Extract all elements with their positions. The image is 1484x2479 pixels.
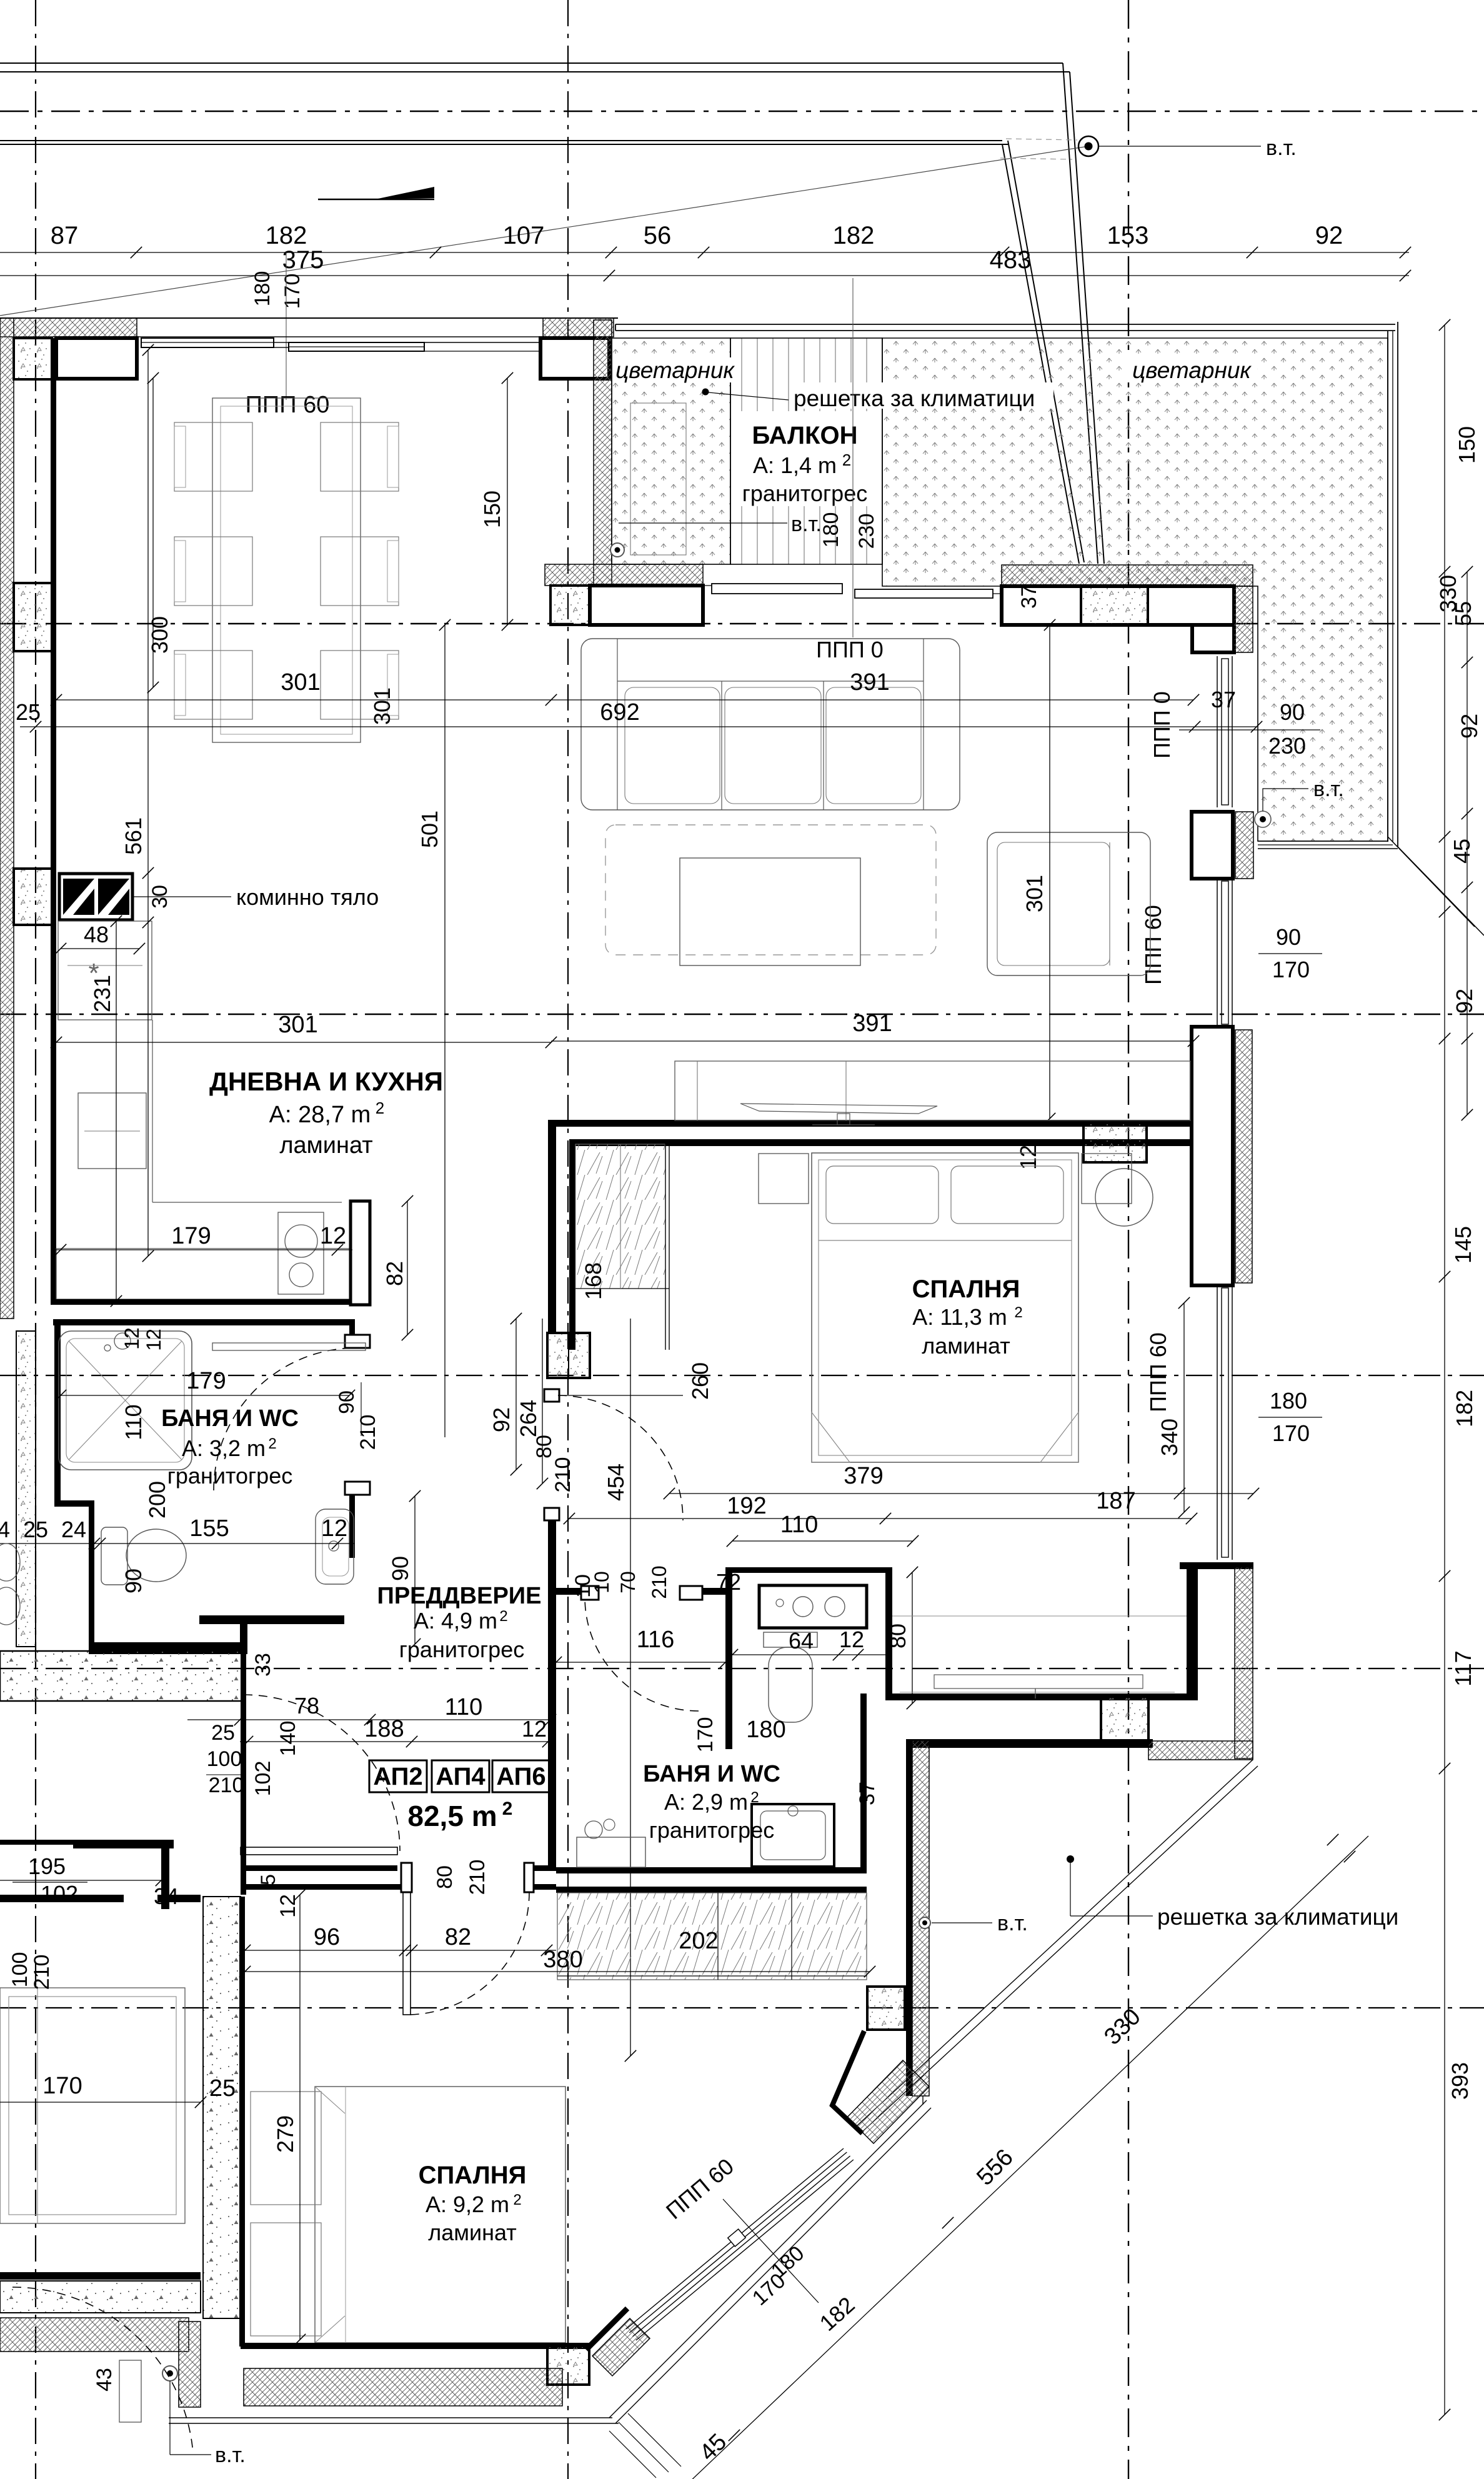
svg-text:260: 260: [687, 1362, 713, 1400]
svg-text:цветарник: цветарник: [1132, 357, 1252, 383]
SE wall vertical masonry: [1193, 1567, 1198, 1700]
axis line horizontal 5: [0, 1668, 1484, 1669]
neighbour room bed: [0, 1988, 185, 2223]
vent point bedroom2 terrace: [919, 1917, 930, 1928]
flower box 1 (tsvetarnik): [612, 338, 730, 564]
svg-text:300: 300: [147, 616, 172, 654]
corridor right wall upper: [548, 1127, 556, 1333]
svg-text:2: 2: [499, 1608, 507, 1625]
insulation band bottom: [0, 2318, 189, 2352]
svg-text:ПРЕДДВЕРИЕ: ПРЕДДВЕРИЕ: [377, 1583, 542, 1609]
bedroom right wall mid masonry: [1192, 1027, 1233, 1285]
entrance door leaf: [241, 1847, 397, 1855]
svg-text:ламинат: ламинат: [922, 1333, 1010, 1359]
svg-text:БАНЯ И WC: БАНЯ И WC: [643, 1761, 780, 1787]
diagonal door dim 180 170: [723, 2199, 819, 2303]
neighbour entrance walls: [73, 1840, 174, 1848]
window sill line: [137, 336, 543, 337]
svg-text:210: 210: [466, 1860, 489, 1895]
corridor dims: [187, 1719, 556, 1720]
svg-text:102: 102: [251, 1761, 275, 1797]
window 180-170 bedroom right: [1217, 1285, 1218, 1560]
svg-text:ППП 60: ППП 60: [1140, 905, 1166, 985]
svg-text:90: 90: [387, 1556, 413, 1581]
svg-text:45: 45: [1449, 839, 1475, 864]
svg-text:210: 210: [356, 1415, 380, 1450]
svg-text:454: 454: [603, 1464, 629, 1501]
corner column top-left: [14, 338, 52, 379]
right dim line outer: [1444, 325, 1445, 2415]
overhang slanted edge outer: [1063, 63, 1098, 564]
label 301 armchair: [1049, 625, 1050, 1119]
label chimney: [134, 896, 231, 897]
slab band lower landing: [0, 1651, 242, 1701]
tsvetarnik label 1: [612, 357, 737, 382]
dim 82 stub: [407, 1201, 408, 1335]
axis line vertical C: [1128, 0, 1129, 2479]
bedroom2 door leaf and swing: [403, 1892, 411, 2015]
grille leader bottom: [1067, 1855, 1074, 1863]
dim 48: [61, 948, 139, 949]
svg-text:АП4: АП4: [436, 1763, 486, 1790]
svg-text:в.т.: в.т.: [791, 512, 822, 536]
bath2 top wall right: [729, 1567, 885, 1573]
north arrow: [375, 187, 434, 199]
svg-text:210: 210: [551, 1457, 575, 1493]
svg-text:170: 170: [42, 2073, 82, 2099]
svg-text:24: 24: [61, 1517, 86, 1542]
svg-text:87: 87: [51, 222, 79, 249]
svg-text:12: 12: [142, 1329, 165, 1351]
svg-text:264: 264: [515, 1400, 541, 1437]
svg-text:2: 2: [268, 1435, 276, 1452]
svg-text:ППП 0: ППП 0: [816, 637, 884, 662]
window 90-230 bedroom right: [1217, 656, 1218, 807]
entrance walls lower: [241, 1865, 397, 1871]
dim vertical 300 left: [152, 378, 154, 687]
partition living-bedroom lower face: [569, 1139, 1193, 1146]
dim 25 301 692 row: [56, 699, 1193, 701]
pier left of balcony door hatch: [545, 564, 703, 586]
dim 301 391 row lower: [56, 1042, 551, 1043]
svg-text:391: 391: [852, 1010, 892, 1037]
entrance door swing: [244, 1695, 400, 1851]
svg-text:145: 145: [1450, 1226, 1476, 1264]
balcony door col stipple: [550, 586, 590, 625]
corridor right wall lower: [548, 1520, 556, 1865]
neighbour fixtures left edge: [0, 1544, 20, 1581]
svg-text:340: 340: [1157, 1419, 1182, 1456]
svg-text:12: 12: [839, 1627, 864, 1652]
svg-text:188: 188: [364, 1716, 404, 1742]
bedroom right wall upper masonry: [1192, 812, 1233, 879]
svg-text:30: 30: [148, 885, 172, 909]
svg-text:А: 11,3 m: А: 11,3 m: [912, 1304, 1007, 1330]
svg-text:375: 375: [282, 246, 324, 274]
balcony vent point leader: [619, 522, 787, 524]
tsvetarnik label 2: [1125, 357, 1257, 382]
bath1 shower: [59, 1331, 192, 1470]
SE wall horizontal: [906, 1739, 1153, 1748]
wardrobe bedroom 11.3: [575, 1144, 665, 1289]
svg-text:25: 25: [16, 699, 41, 725]
svg-text:92: 92: [489, 1407, 514, 1432]
dim 80 niche: [912, 1572, 913, 1703]
vent point bottom left: [169, 2381, 171, 2455]
svg-text:2: 2: [1014, 1304, 1022, 1321]
bedroom right wall mid insulation: [1235, 1030, 1252, 1283]
svg-text:168: 168: [580, 1262, 606, 1300]
diagonal wall upper: [832, 2031, 864, 2133]
pier left of balcony door masonry: [590, 586, 703, 625]
terrace vent point 2: [1255, 811, 1271, 827]
svg-text:210: 210: [30, 1955, 54, 1990]
svg-text:92: 92: [1315, 222, 1343, 249]
slab band bottom: [0, 2281, 201, 2313]
parapet masonry: [1002, 586, 1234, 625]
svg-text:А: 28,7 m: А: 28,7 m: [269, 1102, 371, 1128]
bath1 corner sink: [316, 1509, 354, 1584]
svg-text:692: 692: [600, 699, 639, 726]
railing right vertical: [922, 2096, 924, 2105]
dim 179 12 kitchen: [53, 1249, 352, 1250]
svg-text:90: 90: [335, 1390, 359, 1414]
svg-text:150: 150: [479, 491, 505, 528]
svg-text:180: 180: [746, 1717, 785, 1743]
partition column stipple: [1083, 1123, 1147, 1162]
svg-text:37: 37: [1017, 585, 1041, 609]
right dim line inner: [1467, 572, 1468, 1115]
svg-text:202: 202: [679, 1928, 718, 1954]
exterior wall insulation left band: [0, 318, 14, 1319]
bath1 door swing: [214, 1348, 356, 1490]
svg-text:210: 210: [209, 1773, 244, 1797]
svg-text:107: 107: [503, 222, 545, 249]
svg-text:цветарник: цветарник: [615, 357, 735, 383]
svg-text:80: 80: [885, 1624, 910, 1649]
bedroom2 top wall right part: [556, 1887, 867, 1893]
diagonal dim chain 45-556-330: [687, 1836, 1368, 2479]
blanket line bed1: [819, 1240, 1072, 1241]
svg-text:ламинат: ламинат: [428, 2220, 517, 2245]
svg-text:82,5 m: 82,5 m: [407, 1800, 497, 1832]
balcony sliding door leaf 2: [855, 589, 993, 598]
stipple column bottom: [547, 2346, 589, 2385]
svg-text:182: 182: [266, 222, 307, 249]
svg-text:64: 64: [789, 1628, 814, 1653]
svg-text:43: 43: [92, 2368, 116, 2392]
svg-text:393: 393: [1447, 2062, 1473, 2100]
bath2 bottom wall: [556, 1867, 867, 1873]
svg-text:34: 34: [154, 1883, 179, 1909]
svg-text:в.т.: в.т.: [1266, 136, 1297, 160]
chimney symbol: [59, 874, 132, 920]
svg-text:279: 279: [272, 2115, 298, 2153]
svg-text:2: 2: [502, 1798, 513, 1819]
dining chairs left: [174, 422, 252, 491]
svg-text:БАЛКОН: БАЛКОН: [752, 422, 857, 449]
bath1 door frames: [345, 1335, 370, 1348]
bedroom door swing: [558, 1395, 683, 1520]
svg-text:48: 48: [84, 922, 109, 947]
niche walls: [885, 1693, 1193, 1700]
left wall inner face: [51, 338, 56, 1305]
coffee table: [680, 858, 860, 965]
svg-text:182: 182: [833, 222, 875, 249]
svg-text:110: 110: [121, 1404, 146, 1440]
svg-text:231: 231: [89, 975, 115, 1012]
svg-text:301: 301: [1022, 875, 1047, 912]
terrace railing top: [615, 324, 1395, 325]
svg-text:78: 78: [294, 1693, 319, 1718]
axis line vertical A: [35, 0, 36, 2479]
shaft stipple column: [867, 1987, 905, 2030]
balcony door centre line: [852, 278, 854, 637]
svg-text:301: 301: [369, 687, 395, 725]
kitchen wall stub vertical: [351, 1201, 370, 1305]
boiler and drain: [119, 2360, 141, 2422]
svg-text:гранитогрес: гранитогрес: [649, 1817, 774, 1843]
terrace corner diagonal: [1388, 837, 1475, 927]
bath1 right wall with door: [349, 1319, 355, 1347]
svg-text:110: 110: [780, 1512, 819, 1538]
neighbour wall stub mid: [0, 1840, 73, 1845]
svg-text:гранитогрес: гранитогрес: [167, 1463, 292, 1489]
apartment number boxes: [369, 1760, 427, 1792]
bath1 dims: [61, 1395, 349, 1396]
svg-text:180: 180: [819, 512, 843, 548]
kitchen hob: [278, 1212, 324, 1294]
flower box drain: [610, 543, 624, 557]
sill line balcony door: [595, 585, 712, 586]
bath2 washer: [577, 1837, 645, 1867]
svg-text:А: 9,2 m: А: 9,2 m: [426, 2192, 509, 2217]
svg-text:12: 12: [121, 1327, 143, 1350]
bath1 toilet: [101, 1527, 127, 1585]
svg-text:90: 90: [121, 1569, 146, 1594]
bath1 towel rail: [212, 1343, 366, 1350]
bedroom2 door frames: [401, 1863, 412, 1892]
svg-text:179: 179: [171, 1223, 211, 1249]
bedroom2 bottom wall: [241, 2343, 590, 2349]
partition living-bedroom upper face: [548, 1120, 1193, 1127]
dining table: [212, 398, 361, 742]
bath1 left wall: [54, 1319, 61, 1500]
svg-text:82: 82: [445, 1924, 471, 1950]
svg-text:116: 116: [637, 1627, 675, 1653]
svg-text:А: 1,4 m: А: 1,4 m: [753, 452, 837, 478]
svg-text:72: 72: [716, 1569, 741, 1595]
diagonal sliding door PPP60: [626, 2148, 844, 2329]
axis line horizontal 6: [0, 2007, 1484, 2008]
svg-text:55: 55: [1450, 601, 1476, 626]
svg-text:70: 70: [617, 1571, 639, 1594]
bath1 bottom wall left: [89, 1642, 242, 1649]
dimension chain top row 1: [0, 252, 1409, 253]
bath1 top wall: [53, 1319, 352, 1325]
svg-text:АП6: АП6: [496, 1763, 545, 1790]
svg-text:37: 37: [1211, 687, 1236, 712]
svg-text:391: 391: [850, 669, 889, 696]
corridor right wall door opening frames: [544, 1389, 559, 1402]
svg-text:33: 33: [251, 1653, 275, 1677]
TV cabinet: [675, 1061, 1190, 1120]
svg-text:170: 170: [1272, 1420, 1310, 1446]
svg-text:170: 170: [1272, 957, 1310, 982]
bedroom left wall: [569, 1139, 575, 1350]
bath2 sink: [752, 1804, 834, 1867]
svg-text:решетка за климатици: решетка за климатици: [794, 386, 1035, 411]
svg-text:180: 180: [1270, 1388, 1307, 1414]
svg-text:379: 379: [844, 1463, 883, 1489]
svg-text:301: 301: [278, 1012, 317, 1038]
svg-text:2: 2: [376, 1099, 384, 1117]
svg-text:182: 182: [1452, 1390, 1477, 1427]
kitchen counter: [152, 1020, 153, 1202]
TV set: [740, 1104, 937, 1114]
svg-text:230: 230: [855, 514, 879, 549]
bedside table right: [1082, 1154, 1132, 1204]
svg-text:210: 210: [648, 1565, 670, 1599]
svg-text:90: 90: [1280, 699, 1305, 725]
svg-text:195: 195: [28, 1853, 66, 1879]
svg-text:А: 2,9 m: А: 2,9 m: [664, 1789, 748, 1815]
bottom diagonal wall: [586, 2308, 627, 2350]
dashed projection near vent: [1006, 139, 1077, 140]
flower box 2 (large tsvetarnik): [882, 338, 1388, 841]
bedroom2 right wall: [906, 1748, 912, 2096]
svg-text:ППП 60: ППП 60: [246, 392, 330, 418]
svg-text:187: 187: [1096, 1488, 1135, 1514]
svg-text:170: 170: [694, 1717, 717, 1753]
dining chairs right: [321, 422, 399, 491]
bath2 toilet: [764, 1632, 817, 1647]
svg-text:155: 155: [189, 1515, 229, 1542]
bath2 mid wall vertical: [725, 1567, 732, 1749]
south railing: [169, 2417, 612, 2418]
bedroom1 dims: [1183, 1303, 1185, 1512]
masonry pier below corner column: [56, 338, 137, 379]
bath2 right wall upper: [885, 1567, 892, 1699]
left wall column 3: [14, 869, 52, 925]
balcony deck boards: [730, 338, 882, 564]
window centre reference line: [286, 252, 287, 400]
entrance side wall: [199, 1615, 344, 1624]
svg-text:92: 92: [1457, 714, 1482, 739]
svg-text:12: 12: [522, 1716, 547, 1742]
SE insulation horizontal: [1148, 1741, 1253, 1760]
niche column: [1101, 1697, 1148, 1741]
bath2 vestibule wall: [556, 1588, 599, 1595]
axis line horizontal 1: [0, 111, 1484, 112]
parapet step wall: [1192, 625, 1234, 652]
svg-text:200: 200: [144, 1481, 170, 1519]
svg-text:90: 90: [1276, 924, 1301, 950]
top wall outer face line: [0, 317, 618, 319]
svg-text:179: 179: [186, 1368, 226, 1394]
svg-text:102: 102: [41, 1881, 78, 1907]
parapet insulation band: [1002, 565, 1253, 586]
svg-text:483: 483: [990, 246, 1032, 274]
leader grille for air conditioners: [702, 389, 709, 396]
svg-text:5: 5: [257, 1874, 279, 1885]
svg-text:80: 80: [433, 1865, 457, 1889]
thin terrace edge diagonal from SE corner: [855, 1760, 1253, 2128]
svg-text:25: 25: [211, 1721, 235, 1745]
overhang slanted edge inner: [1002, 144, 1079, 564]
flower box 1 inner bed: [630, 403, 686, 555]
svg-text:301: 301: [281, 669, 320, 696]
balcony text block: [741, 411, 880, 506]
svg-text:501: 501: [417, 811, 442, 848]
corridor wall column: [547, 1333, 590, 1378]
dim 90 corridor: [414, 1496, 416, 1644]
svg-text:180: 180: [251, 271, 274, 307]
bath2 door frames: [581, 1586, 599, 1600]
svg-text:380: 380: [543, 1947, 582, 1973]
svg-text:140: 140: [276, 1721, 300, 1757]
niche shelf line: [892, 1615, 1187, 1617]
svg-text:ППП 0: ППП 0: [1149, 691, 1175, 759]
balcony partition pier hatch: [594, 320, 612, 591]
svg-text:92: 92: [1452, 989, 1477, 1014]
svg-text:ППП 60: ППП 60: [1145, 1332, 1171, 1412]
bath2 right wall lower: [860, 1693, 867, 1873]
vent point symbol v.t. top: [1078, 136, 1098, 156]
svg-text:170: 170: [281, 274, 304, 309]
svg-text:гранитогрес: гранитогрес: [399, 1637, 524, 1662]
bedroom2 bottom insulation: [244, 2368, 562, 2406]
parapet insulation vertical: [1234, 586, 1253, 652]
svg-text:2: 2: [842, 451, 851, 469]
svg-text:А: 3,2 m: А: 3,2 m: [182, 1435, 266, 1461]
masonry pier right of window: [543, 318, 614, 337]
bed bedroom 11.3: [812, 1153, 1078, 1462]
axis line horizontal 4: [0, 1375, 1484, 1376]
balcony sliding door leaf 1: [712, 584, 842, 594]
svg-text:150: 150: [1454, 426, 1480, 464]
svg-text:2: 2: [513, 2192, 521, 2208]
svg-text:153: 153: [1107, 222, 1149, 249]
parapet column: [1081, 586, 1148, 625]
dim vertical 501: [444, 625, 446, 1437]
svg-text:СПАЛНЯ: СПАЛНЯ: [912, 1275, 1020, 1303]
terrace bottom edge: [1258, 840, 1388, 842]
window W1 glazing: [141, 338, 274, 347]
svg-text:37: 37: [855, 1782, 879, 1805]
svg-text:100: 100: [207, 1747, 242, 1771]
exterior wall insulation top-left: [0, 318, 137, 337]
svg-text:10: 10: [571, 1574, 595, 1598]
dims 92 264 454 vertical: [515, 1319, 517, 1470]
neighbour room walls: [0, 2272, 201, 2280]
svg-text:230: 230: [1268, 733, 1306, 759]
axis line horizontal 2: [0, 623, 1484, 624]
neighbour door swing: [12, 2287, 193, 2453]
svg-text:ламинат: ламинат: [279, 1132, 372, 1159]
pillows bed1: [826, 1166, 939, 1224]
kitchen tall cabinet: [58, 921, 152, 1020]
deck edge lines below diagonal door: [628, 2413, 681, 2467]
svg-text:2: 2: [750, 1789, 759, 1806]
neighbour room top wall: [0, 1895, 124, 1902]
neighbour wall band: [16, 1331, 36, 1647]
window W2 glazing: [289, 342, 424, 351]
bath2 vanity: [759, 1585, 867, 1628]
svg-text:110: 110: [445, 1694, 483, 1720]
svg-text:56: 56: [644, 222, 672, 249]
svg-text:в.т.: в.т.: [1313, 777, 1344, 801]
